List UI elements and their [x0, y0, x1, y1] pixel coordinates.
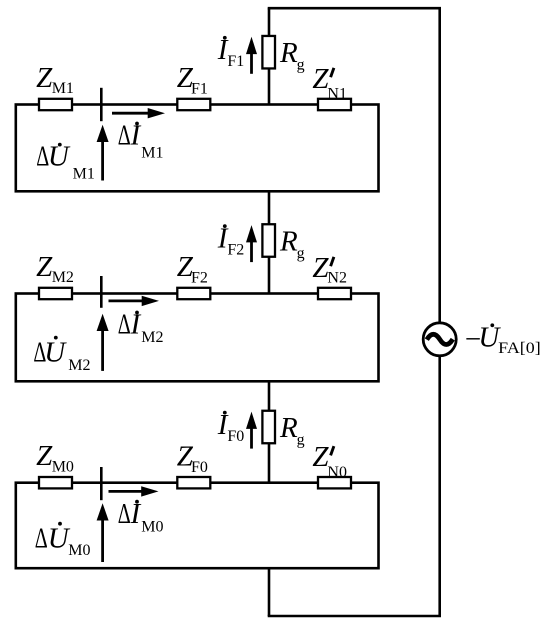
wire: top horizontal from fault branch to right rail — [268, 7, 441, 10]
wire: right rail lower segment — [438, 356, 441, 616]
svg-text:M1: M1 — [141, 145, 163, 162]
arrow: voltage Delta-U_M1 — [97, 125, 109, 181]
svg-text:Z: Z — [36, 251, 53, 283]
svg-text:M0: M0 — [52, 458, 74, 475]
resistor Z_M1 — [39, 99, 72, 110]
resistor Z_N1 — [318, 99, 351, 110]
svg-text:F1: F1 — [227, 53, 244, 70]
label Delta-U_M0 — [35, 522, 91, 559]
wire: sequence-network loop 1 outline — [16, 105, 379, 192]
label I_F2 — [217, 222, 245, 258]
resistor Rg (fault branch 1) — [262, 36, 275, 68]
arrow: fault current I_F0 — [246, 412, 257, 449]
source: AC source circle — [423, 323, 456, 356]
label -U_FA[0] — [465, 322, 541, 358]
label Rg (fault branch 0) — [279, 412, 305, 449]
label Z_F1 — [177, 62, 208, 97]
svg-text:F2: F2 — [227, 241, 244, 258]
label I_F1 — [217, 34, 245, 70]
svg-text:R: R — [279, 225, 298, 257]
resistor Z_N2 — [318, 288, 351, 299]
svg-text:M2: M2 — [52, 269, 74, 286]
label Delta-I_M0 — [118, 498, 164, 536]
label Delta-U_M2 — [33, 336, 90, 374]
svg-text:M1: M1 — [73, 166, 95, 183]
wire: fault branch segment, top rail down to positive-seq loop — [268, 8, 271, 104]
arrow: current Delta-I_M2 — [109, 296, 160, 306]
svg-text:F0: F0 — [191, 459, 208, 476]
label Rg (fault branch 1) — [279, 37, 305, 74]
label Z_F2 — [177, 251, 208, 286]
arrow: voltage Delta-U_M0 — [97, 503, 109, 562]
svg-text:M2: M2 — [68, 357, 90, 374]
label I_F0 — [217, 409, 245, 445]
svg-text:F1: F1 — [191, 81, 208, 98]
resistor Rg (fault branch 2) — [262, 224, 275, 257]
svg-text:Z: Z — [36, 440, 53, 472]
wire: fault branch segment, positive-seq loop to negative-seq loop — [268, 191, 271, 293]
svg-text:N0: N0 — [327, 464, 347, 481]
svg-text:U: U — [44, 336, 67, 368]
svg-text:F0: F0 — [227, 428, 244, 445]
svg-text:M0: M0 — [141, 518, 163, 535]
svg-text:Δ: Δ — [118, 498, 131, 530]
resistor Z_F0 — [177, 477, 210, 488]
svg-text:g: g — [297, 431, 305, 448]
label Z_N1 (primed) — [312, 63, 347, 103]
source: sine symbol inside circle — [427, 334, 453, 344]
resistor Z_M0 — [39, 477, 72, 488]
resistor Z_N0 — [318, 477, 351, 488]
wire: bottom horizontal from fault branch to right rail — [268, 615, 441, 618]
svg-text:M1: M1 — [52, 80, 74, 97]
arrow: current Delta-I_M0 — [109, 486, 159, 496]
svg-text:M0: M0 — [68, 542, 90, 559]
label Z_N0 (primed) — [312, 441, 347, 481]
label Z_M1 — [36, 62, 74, 97]
node: measurement tick on loop 1 — [100, 88, 103, 121]
svg-text:Δ: Δ — [35, 523, 48, 555]
svg-text:Z: Z — [36, 62, 53, 94]
svg-text:M2: M2 — [141, 329, 163, 346]
arrow: current Delta-I_M1 — [112, 108, 165, 118]
svg-text:N1: N1 — [327, 85, 347, 102]
wire: fault branch segment, negative-seq loop to zero-seq loop — [268, 381, 271, 482]
resistor Z_F2 — [177, 288, 210, 299]
label Delta-U_M1 — [36, 141, 95, 183]
svg-text:g: g — [297, 57, 305, 74]
arrow: fault current I_F1 — [246, 37, 257, 74]
label Delta-I_M1 — [118, 120, 164, 162]
svg-text:R: R — [279, 37, 298, 69]
node: measurement tick on loop 0 — [100, 467, 103, 500]
label Z_M0 — [36, 440, 74, 475]
svg-text:FA[0]: FA[0] — [498, 340, 541, 357]
svg-text:F2: F2 — [191, 270, 208, 287]
resistor Rg (fault branch 0) — [262, 411, 275, 444]
wire: right rail upper segment — [438, 8, 441, 323]
wire: sequence-network loop 0 outline — [16, 483, 379, 569]
resistor Z_F1 — [177, 99, 210, 110]
arrow: fault current I_F2 — [246, 225, 257, 262]
wire: sequence-network loop 2 outline — [16, 294, 379, 382]
label Z_F0 — [177, 440, 208, 475]
wire: fault branch segment, zero-seq loop to bottom rail — [268, 568, 271, 616]
label Z_N2 (primed) — [312, 252, 347, 287]
svg-text:Δ: Δ — [118, 309, 131, 341]
svg-text:Δ: Δ — [118, 120, 131, 152]
resistor Z_M2 — [39, 288, 72, 299]
arrow: voltage Delta-U_M2 — [97, 314, 109, 371]
label Z_M2 — [36, 251, 74, 286]
svg-text:N2: N2 — [327, 270, 347, 287]
label Rg (fault branch 2) — [279, 225, 305, 261]
svg-text:R: R — [279, 412, 298, 444]
svg-text:g: g — [297, 245, 305, 262]
node: measurement tick on loop 2 — [100, 276, 103, 308]
label Delta-I_M2 — [118, 309, 164, 347]
